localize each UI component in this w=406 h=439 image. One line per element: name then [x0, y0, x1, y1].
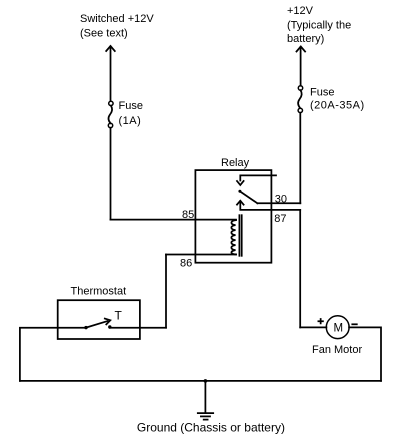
wire 86 horizontal from coil: [166, 254, 236, 256]
wire thermostat right to 86: [110, 327, 166, 329]
ground bar 1: [198, 412, 213, 414]
svg-text:+12V: +12V: [287, 5, 314, 17]
thermostat switch blade: [86, 321, 108, 328]
svg-text:(See text): (See text): [80, 28, 128, 40]
svg-text:87: 87: [274, 213, 286, 225]
wire left vertical from fuse F1 to coil feed: [110, 128, 112, 220]
svg-text:Switched +12V: Switched +12V: [80, 13, 154, 25]
thermostat contact dot right: [108, 325, 111, 328]
relay contact 87a stub wire: [240, 175, 276, 180]
svg-text:Ground (Chassis or battery): Ground (Chassis or battery): [137, 421, 285, 435]
fuse F1 bottom terminal circle: [108, 123, 112, 127]
relay contact arrow down: [237, 181, 244, 185]
relay coil winding: [231, 220, 236, 254]
fan motor plus sign: [318, 319, 323, 323]
svg-text:M: M: [334, 322, 344, 334]
relay movable contact blade to pin 30: [240, 192, 257, 204]
wire pin 87 vertical down to fan motor: [299, 210, 301, 328]
fuse F1 top terminal circle: [109, 101, 113, 105]
wire 85 horizontal to relay coil: [111, 219, 237, 221]
fuse F2 bottom terminal circle: [298, 108, 302, 112]
wire pin 30 horizontal: [257, 202, 300, 204]
fan motor minus sign: [352, 323, 357, 325]
wire left arrow stem to fuse F1: [110, 47, 112, 102]
thermostat contact dot left: [84, 326, 87, 329]
wire fan motor left lead: [300, 326, 326, 328]
ground stem: [204, 381, 206, 413]
svg-text:Fuse: Fuse: [119, 100, 143, 112]
relay core line 1: [238, 215, 240, 256]
thermostat box: [58, 300, 140, 339]
wire pin 87 from contact: [240, 201, 300, 210]
relay contact pivot dot: [238, 190, 241, 193]
ground bar 2: [201, 415, 210, 417]
junction dot ground: [204, 379, 208, 383]
fuse F2 top terminal circle: [298, 86, 302, 90]
svg-text:Thermostat: Thermostat: [71, 286, 127, 298]
svg-text:Fan Motor: Fan Motor: [312, 344, 362, 356]
svg-text:Relay: Relay: [221, 157, 250, 169]
svg-text:(20A-35A): (20A-35A): [310, 100, 365, 112]
svg-text:Fuse: Fuse: [310, 87, 334, 99]
relay contact arrow up (87): [237, 201, 244, 205]
relay core line 2: [241, 215, 243, 256]
wire thermostat left lead: [20, 328, 86, 381]
arrow up left (Switched +12V): [106, 46, 115, 51]
wire right arrow stem to fuse F2: [300, 47, 302, 86]
arrow up right (+12V battery): [297, 47, 306, 52]
svg-text:85: 85: [182, 209, 194, 221]
fan motor M1 circle: [326, 316, 349, 339]
svg-text:30: 30: [275, 194, 287, 206]
fuse F2 wavy element: [298, 90, 302, 108]
wire fan motor right lead: [349, 327, 381, 381]
thermostat blade arrowhead: [105, 319, 111, 325]
svg-text:(1A): (1A): [119, 115, 142, 127]
fuse F1 wavy element: [109, 106, 113, 124]
svg-text:(Typically the: (Typically the: [287, 19, 351, 31]
wire ground bus: [20, 380, 381, 382]
svg-text:T: T: [115, 309, 123, 323]
wire 86 vertical down to thermostat: [165, 255, 167, 328]
svg-text:86: 86: [180, 258, 192, 270]
relay K1 box: [195, 170, 271, 263]
svg-text:battery): battery): [287, 33, 324, 45]
ground bar 3: [204, 419, 208, 421]
wire right vertical from fuse F2 to pin 30: [299, 113, 301, 204]
